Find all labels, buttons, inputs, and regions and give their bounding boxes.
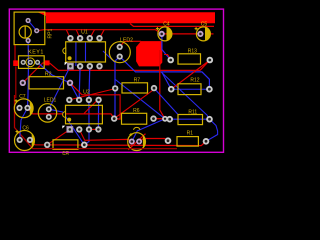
zone (red fill area) <box>136 41 162 66</box>
wire red feed to C1 left pad <box>85 139 132 141</box>
svg-text:R11: R11 <box>188 109 197 115</box>
wire red C4-C5 <box>162 33 201 35</box>
wire red R13 left stub <box>164 55 171 60</box>
svg-text:R6: R6 <box>133 108 140 114</box>
resistor R11 <box>166 115 212 125</box>
svg-text:R13: R13 <box>188 49 197 55</box>
wire blue U1 pin1 to LED1 <box>49 66 71 109</box>
wire blue R11 right to R1 right <box>206 119 218 141</box>
wire red C1 to R1 <box>140 139 168 142</box>
C5 plus <box>195 27 198 30</box>
svg-text:LED1: LED1 <box>44 98 57 104</box>
wire red R13 right to R12 left diag <box>171 60 210 89</box>
resistor R7 <box>112 83 157 93</box>
capacitor C6 <box>15 130 35 151</box>
svg-text:C4: C4 <box>163 22 170 28</box>
wire blue R7 pad to R11 <box>154 88 178 114</box>
wire red LED2 to zone <box>120 41 141 47</box>
wire blue RP1 to KEY1 to C7 <box>28 41 29 108</box>
svg-text:R2: R2 <box>45 71 52 77</box>
wire blue U1 to U2 verticals <box>79 66 80 100</box>
wire red RP1 pad to C4 y=29.7 <box>37 30 162 34</box>
wire dark red vertical from KEY1 left pad <box>14 45 16 61</box>
wire red vertical x=161 <box>160 50 165 119</box>
resistor R1 <box>165 137 210 147</box>
svg-text:LED2: LED2 <box>120 37 133 43</box>
svg-text:R3: R3 <box>62 151 69 157</box>
svg-text:C7: C7 <box>19 94 26 100</box>
trimmer RP1 <box>14 12 45 45</box>
svg-text:R1: R1 <box>187 131 194 137</box>
wire blue diag R7L to via <box>115 79 165 119</box>
wire red bar to U1 pads <box>66 30 70 39</box>
marker white U2 <box>62 126 65 129</box>
svg-text:U2: U2 <box>83 90 90 96</box>
wire red R2 pad to KEY1 <box>23 63 47 83</box>
resistor R6 <box>111 113 157 124</box>
wire blue U2 pad down <box>84 129 89 144</box>
wire red vertical to C6 <box>15 95 33 149</box>
wire red R3 row <box>30 140 206 146</box>
wire blue KEY1 to R2 to U2 <box>38 62 80 100</box>
button KEY1 <box>13 56 49 69</box>
svg-text:RP1: RP1 <box>48 29 54 39</box>
wire blue R12 left pad up <box>162 73 171 90</box>
wire red U2 pin1 to R3 left <box>47 129 70 144</box>
bottom dark red wire <box>33 148 178 150</box>
wire blue LED2 down through R7 to R6 <box>115 57 120 119</box>
board outline <box>9 9 223 152</box>
wire blue R12 right to R11 right <box>161 72 209 121</box>
wire blue LED1 to R3 right pad <box>49 109 85 145</box>
resistor R2 <box>20 77 74 89</box>
wire blue via to C1 <box>132 119 165 142</box>
IC U2 <box>63 97 103 133</box>
wire red R7 right pad down <box>114 89 154 119</box>
capacitor C5 <box>196 27 210 41</box>
wire blue through U1 body <box>75 42 77 66</box>
svg-text:R12: R12 <box>190 77 199 83</box>
resistor R3 (bottom mirrored) <box>44 140 88 150</box>
capacitor C7 <box>14 99 33 118</box>
svg-text:C5: C5 <box>201 22 208 28</box>
LED LED2 <box>109 42 130 63</box>
marker white U1 <box>65 62 68 65</box>
wire blue U1 pad4 stub <box>103 51 115 63</box>
svg-text:C6: C6 <box>22 125 29 131</box>
resistor R12 <box>168 84 213 95</box>
svg-text:R7: R7 <box>134 77 141 83</box>
power bar zone top <box>38 12 216 23</box>
wire blue long y=71.9 to R12 <box>120 57 210 90</box>
wire red U2 pad2 to C1 line <box>79 129 85 140</box>
wire red R2 pad via corridor to R6 <box>70 83 120 119</box>
via right of R6 <box>162 116 168 122</box>
wire red long y=70.4 KEY1 to R13 <box>50 60 210 70</box>
wire red R6 right to via to R11 <box>154 118 170 121</box>
wire red U2 bottom pads 3-4 <box>89 128 98 130</box>
svg-text:U1: U1 <box>81 30 88 36</box>
resistor R13 <box>167 54 213 64</box>
C4 plus <box>156 27 159 30</box>
svg-text:KEY1: KEY1 <box>28 50 44 56</box>
capacitor C1 bottom center <box>128 127 146 150</box>
wire red below bar y=26.4 <box>130 24 214 27</box>
wire red C1 diagonal <box>128 134 145 150</box>
wire blue C4 area to R13 pad <box>162 37 171 61</box>
wire red LED1 to R6 <box>28 108 115 119</box>
IC U1 <box>63 35 106 69</box>
wire blue C7 to C6 <box>20 108 28 140</box>
wire red R7 diag over U2 <box>69 89 115 100</box>
LED LED1 <box>38 104 56 122</box>
capacitor C4 <box>158 27 172 41</box>
